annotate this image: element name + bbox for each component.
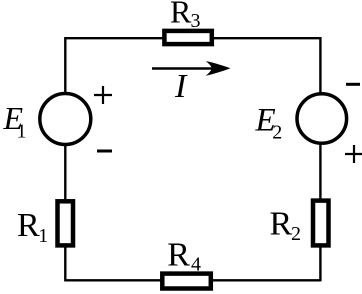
svg-text:1: 1	[38, 225, 48, 247]
svg-text:R: R	[170, 0, 192, 30]
plus sign E2	[345, 145, 362, 163]
wire left upper	[64, 37, 66, 94]
svg-text:3: 3	[191, 10, 201, 32]
wire right lower	[319, 246, 321, 281]
resistor R3	[164, 31, 211, 44]
wire right middle	[319, 144, 321, 200]
source E2	[297, 94, 347, 144]
current arrow I	[152, 61, 231, 76]
source E1	[40, 94, 91, 145]
label R4	[167, 237, 201, 276]
label R1	[17, 207, 48, 247]
resistor R1	[58, 201, 74, 245]
label R3	[170, 0, 201, 32]
minus sign E2	[346, 83, 360, 86]
wire left lower	[64, 246, 66, 281]
svg-text:I: I	[174, 68, 188, 105]
svg-text:2: 2	[291, 223, 301, 245]
label R2	[270, 206, 302, 245]
wire bottom	[65, 279, 320, 281]
minus sign E1	[97, 150, 112, 153]
svg-text:1: 1	[17, 121, 27, 143]
svg-text:R: R	[167, 237, 190, 274]
wire left middle	[64, 145, 66, 201]
svg-text:R: R	[17, 207, 40, 244]
plus sign E1	[94, 86, 112, 104]
svg-text:R: R	[270, 206, 293, 243]
resistor R4	[162, 274, 211, 289]
wire top	[65, 37, 320, 39]
label E1	[3, 100, 27, 143]
wire right upper	[319, 37, 321, 94]
svg-text:2: 2	[272, 121, 282, 143]
resistor R2	[313, 201, 329, 246]
label E2	[255, 103, 283, 144]
svg-text:4: 4	[191, 254, 201, 276]
